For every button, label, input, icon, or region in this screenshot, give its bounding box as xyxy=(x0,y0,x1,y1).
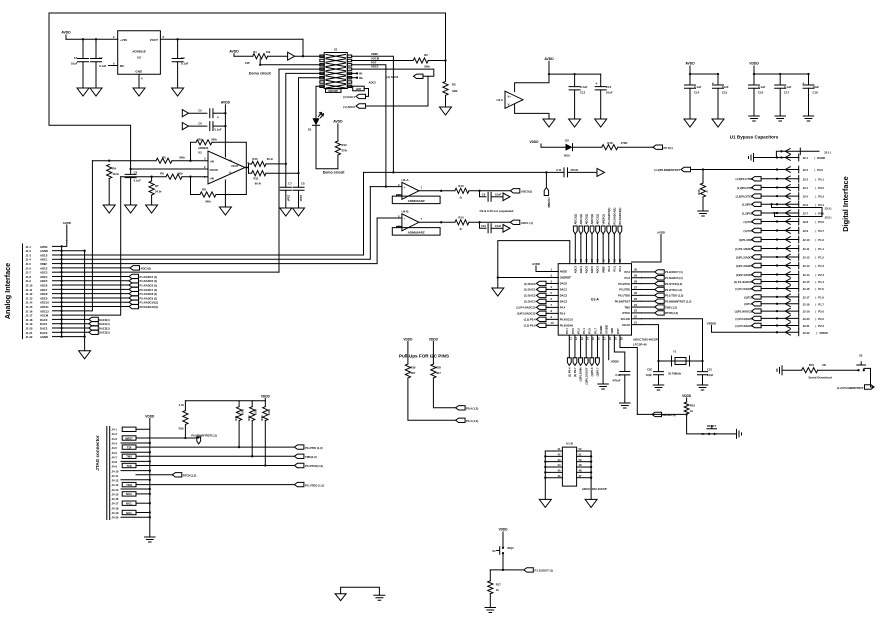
power net AVDD (R1) xyxy=(229,49,239,56)
svg-text:Pull-Ups FOR I2C PINS: Pull-Ups FOR I2C PINS xyxy=(399,354,449,359)
row J2-20 P2.2 xyxy=(735,315,824,322)
wire switch to ground xyxy=(717,433,737,435)
svg-text:27: 27 xyxy=(634,285,637,289)
svg-text:R11: R11 xyxy=(254,176,259,180)
row J2-17 P1.6 xyxy=(744,294,824,301)
svg-text:P2.4: P2.4 xyxy=(818,273,824,277)
svg-text:28: 28 xyxy=(634,279,637,283)
capacitor C10 (not populated) xyxy=(480,222,504,233)
svg-text:P0.5: P0.5 xyxy=(571,328,575,334)
svg-text:J2-7: J2-7 xyxy=(803,212,809,216)
wire pull-up rail / power net VDDD xyxy=(185,394,270,401)
svg-text:J2-2: J2-2 xyxy=(803,168,809,172)
svg-text:J1-4: J1-4 xyxy=(26,258,32,262)
svg-text:51: 51 xyxy=(579,453,582,457)
wire J1 pin stubs xyxy=(53,245,63,338)
power net AVDD (bypass) xyxy=(685,62,695,75)
svg-text:32.768kHz: 32.768kHz xyxy=(668,372,682,376)
svg-text:J1-6: J1-6 xyxy=(26,266,32,270)
svg-text:42: 42 xyxy=(558,453,561,457)
row J2-21 P2.3 xyxy=(735,322,824,329)
power net AVDD (U4-C) xyxy=(544,57,554,74)
svg-text:J2-13: J2-13 xyxy=(803,264,810,268)
svg-text:R2: R2 xyxy=(424,53,428,57)
svg-text:R6: R6 xyxy=(160,172,164,176)
svg-text:U4-A: U4-A xyxy=(402,178,410,182)
wire U2 GND pin xyxy=(138,74,140,88)
svg-text:12pF: 12pF xyxy=(707,373,714,377)
pin 32 / flag P2.4/ADC8(1) (U1-A top) xyxy=(618,208,622,272)
wire J1 AGND bus xyxy=(62,251,85,337)
svg-text:(1) P0.7: (1) P0.7 xyxy=(573,367,577,377)
svg-text:IN-: IN- xyxy=(359,72,363,76)
svg-text:SW-DIP: SW-DIP xyxy=(328,89,338,93)
capacitor C14 xyxy=(685,74,702,119)
svg-text:P2.2/ADC7 (1): P2.2/ADC7 (1) xyxy=(665,270,683,274)
wire header row3 to analog bus (long vertical x=279) xyxy=(279,69,324,272)
svg-text:348r: 348r xyxy=(452,89,459,93)
svg-text:TCK: TCK xyxy=(126,464,132,468)
svg-text:50: 50 xyxy=(579,458,582,462)
svg-text:J2-6: J2-6 xyxy=(803,203,809,207)
svg-text:J1-7: J1-7 xyxy=(26,271,32,275)
svg-text:W1A: W1A xyxy=(564,154,570,158)
svg-text:VREF: VREF xyxy=(40,262,48,266)
svg-text:C15: C15 xyxy=(722,90,728,94)
wire AGND-DGND tie xyxy=(341,587,380,595)
flag P2.4/ADC9 (1) (J1 row13) xyxy=(62,296,158,301)
svg-text:IOVDD: IOVDD xyxy=(605,325,609,334)
svg-text:J4-5: J4-5 xyxy=(112,446,118,450)
svg-text:(1)P1.3/ADC5: (1)P1.3/ADC5 xyxy=(736,264,753,268)
svg-text:R14: R14 xyxy=(458,215,464,219)
svg-text:C7: C7 xyxy=(288,182,292,186)
svg-text:R39: R39 xyxy=(411,366,416,370)
svg-text:ADC5: ADC5 xyxy=(40,279,48,283)
ground (R40) xyxy=(698,211,709,216)
IC U1-B left pins xyxy=(544,447,562,479)
wire U4-B output xyxy=(419,221,454,223)
wire R13 to flag ADC0 xyxy=(469,190,510,192)
svg-text:ADC5: ADC5 xyxy=(590,266,594,274)
svg-text:P0.3: P0.3 xyxy=(818,195,824,199)
svg-text:C18: C18 xyxy=(813,90,819,94)
resistor R11 xyxy=(249,171,300,186)
U4-A package AD8606ARZ xyxy=(392,196,440,204)
svg-text:J1-14: J1-14 xyxy=(26,301,33,305)
resistor R13 xyxy=(455,184,469,200)
svg-text:+IN: +IN xyxy=(210,159,214,163)
svg-text:VDDD: VDDD xyxy=(682,394,692,398)
wire J1 common bus vertical xyxy=(61,246,63,336)
svg-text:P2.0/ADC12(1): P2.0/ADC12(1) xyxy=(140,305,158,309)
ground (C21) xyxy=(697,385,708,390)
wire header row7 to LED box xyxy=(347,85,352,87)
svg-text:P1.1: P1.1 xyxy=(818,247,824,251)
svg-text:J4-2: J4-2 xyxy=(112,432,118,436)
svg-text:J2-20: J2-20 xyxy=(803,317,810,321)
resistor R17 xyxy=(488,570,502,608)
flag DAC3(1) (J1 row21) xyxy=(62,330,110,335)
svg-text:P1.4/ADC10(1): P1.4/ADC10(1) xyxy=(140,301,158,305)
svg-text:24.9r: 24.9r xyxy=(155,189,162,193)
wire NRST row / resistor R16 xyxy=(136,401,199,439)
svg-text:DAC0: DAC0 xyxy=(560,282,568,286)
resistor R2 xyxy=(413,53,431,68)
flag (1) DAC3 (U1-A pin6) xyxy=(524,299,548,304)
svg-text:Serial Download: Serial Download xyxy=(808,376,832,380)
svg-text:J3-3 |: J3-3 | xyxy=(825,206,832,210)
capacitor C19 xyxy=(612,372,629,403)
svg-text:N/CL: N/CL xyxy=(126,511,133,515)
svg-text:0.1uF: 0.1uF xyxy=(215,127,222,131)
svg-text:DAC3: DAC3 xyxy=(560,300,568,304)
svg-text:10uF: 10uF xyxy=(813,85,820,89)
capacitor C2 xyxy=(91,39,107,88)
svg-text:C17: C17 xyxy=(784,90,790,94)
svg-text:ADC10: ADC10 xyxy=(40,301,49,305)
flag DAC0(1) (J1 row18) xyxy=(62,317,110,322)
flag ADC2(1) (J1 row6) xyxy=(62,266,152,271)
svg-text:J1-1: J1-1 xyxy=(26,245,32,249)
wire R1 input xyxy=(234,55,253,57)
svg-text:348r: 348r xyxy=(177,172,184,176)
svg-text:21: 21 xyxy=(634,320,637,324)
svg-text:P2.0: P2.0 xyxy=(818,310,824,314)
svg-text:100k: 100k xyxy=(241,409,245,415)
svg-text:P0.4: P0.4 xyxy=(818,203,824,207)
svg-text:J4-13: J4-13 xyxy=(112,483,119,487)
svg-text:J4-20: J4-20 xyxy=(112,516,119,520)
ground (C18) xyxy=(803,116,814,121)
pin 5 NC stub xyxy=(109,65,118,67)
pin 38 / flag ADC0(1) (U1-A top) xyxy=(585,214,589,274)
ground (U2) xyxy=(133,88,145,96)
flag TMS(1,2) xyxy=(294,454,316,459)
flag P2.4/ADC7 (1) (J1 row11) xyxy=(62,287,158,292)
flag P0.0/BM/NTRST(1,2) (JTAG) xyxy=(191,434,217,444)
svg-text:34: 34 xyxy=(607,259,611,262)
svg-text:+IN: +IN xyxy=(210,177,214,181)
wire header row4 to R10 node xyxy=(286,73,324,163)
wire U3 V- to ground xyxy=(224,180,226,207)
row J2-9 P0.7 xyxy=(743,227,824,234)
ground (C2) xyxy=(90,88,102,96)
svg-text:VDDD: VDDD xyxy=(529,140,539,144)
svg-text:24: 24 xyxy=(634,303,637,307)
svg-text:RESET: RESET xyxy=(707,424,716,428)
net box TDO (J4) xyxy=(122,482,136,487)
svg-text:ADC1 (1): ADC1 (1) xyxy=(521,221,533,225)
power net AVDD (J1 row1) xyxy=(62,221,72,246)
svg-text:35: 35 xyxy=(601,259,605,262)
ground (tie, earth) xyxy=(374,595,385,600)
svg-text:ADC5: ADC5 xyxy=(369,81,377,85)
wire VOCM distribution loop (top border) xyxy=(49,13,446,169)
svg-text:VDDIO: VDDIO xyxy=(819,331,828,335)
svg-text:60.4r: 60.4r xyxy=(267,157,274,161)
svg-text:VDDD: VDDD xyxy=(498,528,508,532)
svg-text:IN+: IN+ xyxy=(359,76,364,80)
IC U1-A left pin stubs xyxy=(548,267,574,327)
IC U1-A bottom pin labels xyxy=(565,325,623,340)
svg-text:J4-9: J4-9 xyxy=(112,465,118,469)
svg-text:+VIN: +VIN xyxy=(120,38,127,42)
svg-text:P1.3/ADC5(1): P1.3/ADC5(1) xyxy=(607,208,611,225)
row J2-3 P0.1 xyxy=(736,175,825,182)
net box N/CL (J4) xyxy=(122,510,136,515)
svg-text:S3: S3 xyxy=(701,432,705,436)
svg-text:ADC3: ADC3 xyxy=(371,65,379,69)
svg-text:Digital Interface: Digital Interface xyxy=(841,176,850,231)
svg-text:J1-19: J1-19 xyxy=(26,322,33,326)
svg-text:AVDD: AVDD xyxy=(333,120,343,124)
svg-text:AVDD: AVDD xyxy=(685,62,695,66)
wire U1-B left gnd xyxy=(544,451,546,499)
wire S2 down to flag xyxy=(864,368,874,387)
svg-text:4K7: 4K7 xyxy=(411,371,416,375)
svg-text:(1)P1.7: (1)P1.7 xyxy=(744,302,753,306)
svg-text:(1) P2.3/ADC6: (1) P2.3/ADC6 xyxy=(735,324,753,328)
svg-text:(1) P0.6: (1) P0.6 xyxy=(743,220,753,224)
svg-text:C2: C2 xyxy=(99,56,103,60)
svg-text:J4-6: J4-6 xyxy=(112,451,118,455)
svg-text:J1-8: J1-8 xyxy=(26,275,32,279)
flag /RESET(2) xyxy=(652,412,676,417)
svg-text:S1: S1 xyxy=(334,48,338,52)
svg-text:J2-17: J2-17 xyxy=(803,295,810,299)
svg-text:P1.5: P1.5 xyxy=(818,287,824,291)
svg-text:P0.0/BM/NTRST(1,2): P0.0/BM/NTRST(1,2) xyxy=(191,434,217,438)
svg-text:DAC2: DAC2 xyxy=(40,326,48,330)
svg-text:23: 23 xyxy=(634,309,637,313)
svg-text:348r: 348r xyxy=(179,156,186,160)
svg-text:VDDD: VDDD xyxy=(429,337,439,341)
svg-text:J1-9: J1-9 xyxy=(26,279,32,283)
flag P0.7(1) xyxy=(653,145,673,150)
IC U1-B right pins xyxy=(577,447,593,479)
svg-text:VOUT: VOUT xyxy=(150,38,159,42)
row J2-11 P1.1 xyxy=(735,245,824,252)
wire U4-A +IN xyxy=(370,186,402,188)
ground (R4) xyxy=(103,205,115,213)
flag (1) P4.4/ADC10 (U1-A pin7) xyxy=(516,305,548,310)
svg-text:R12: R12 xyxy=(342,143,348,147)
resistor R6 / wire +IN lower xyxy=(121,172,208,180)
svg-text:P0.3/TCK: P0.3/TCK xyxy=(618,282,630,286)
wire TDI row to flag xyxy=(136,446,294,448)
svg-text:U1 Bypass Capacitors: U1 Bypass Capacitors xyxy=(730,135,779,140)
svg-text:C4: C4 xyxy=(134,171,138,175)
wire GNDREF pin2 loop xyxy=(498,241,570,278)
svg-text:D2: D2 xyxy=(565,139,569,143)
svg-text:C5: C5 xyxy=(198,109,202,113)
svg-text:(1) P0.4: (1) P0.4 xyxy=(567,367,571,377)
flag P2.0/ADC12(1) (J1 row15) xyxy=(62,304,158,309)
svg-text:C14: C14 xyxy=(694,90,700,94)
pin 40 / flag ADC3(1) (U1-A top) xyxy=(573,214,577,274)
svg-text:P1.6: P1.6 xyxy=(588,328,592,334)
svg-text:P2.2: P2.2 xyxy=(818,317,824,321)
flag (1) DAC2 (U1-A pin5) xyxy=(524,293,548,298)
wire R2 to junction xyxy=(428,60,445,62)
jumper header S1 body xyxy=(320,48,352,89)
svg-text:P1.4: P1.4 xyxy=(818,280,824,284)
svg-text:VDD: VDD xyxy=(610,328,614,334)
svg-text:P2.4: P2.4 xyxy=(618,265,622,271)
capacitor C9 (not populated) xyxy=(480,191,504,202)
ground (C15) xyxy=(712,119,724,127)
flag TMS (1,2) (U1-A pin24) xyxy=(642,305,678,310)
svg-text:VREF(1): VREF(1) xyxy=(601,214,605,225)
svg-text:(1)P1.1/SOUT: (1)P1.1/SOUT xyxy=(584,367,588,384)
capacitor C7 xyxy=(280,164,292,208)
flag P0.3/TCK(1,2) (U1-A pin28) xyxy=(642,281,683,286)
wire VOUT rail xyxy=(160,38,303,40)
flag (1)P1.0/SIN (U1-A pin13) xyxy=(579,335,583,381)
capacitor C17 xyxy=(775,74,792,116)
svg-text:P1.0: P1.0 xyxy=(818,238,824,242)
svg-text:VDDD: VDDD xyxy=(403,337,413,341)
svg-text:ADC1: ADC1 xyxy=(579,266,583,274)
wire U4-A output xyxy=(419,190,454,192)
flag P0.4 (1,2) xyxy=(456,418,479,423)
power net VDDIO (J2-22) xyxy=(707,321,828,335)
svg-text:R9: R9 xyxy=(198,137,202,141)
flag (1,2)P0.6/BM/NTRST (J2-2) xyxy=(654,166,823,173)
wire VDD pin19 to C19 xyxy=(614,335,624,371)
svg-text:ADC2: ADC2 xyxy=(40,266,48,270)
svg-text:52: 52 xyxy=(579,447,582,451)
svg-text:+: + xyxy=(712,82,714,86)
net label VREF / wire to VREF line xyxy=(352,52,394,172)
svg-text:(1) P1.5/ADC6: (1) P1.5/ADC6 xyxy=(735,287,753,291)
U4-B package AD8606ARZ xyxy=(392,228,440,236)
connector J3-1 row xyxy=(776,148,831,158)
svg-text:R10: R10 xyxy=(252,157,258,161)
svg-text:J1-18: J1-18 xyxy=(26,318,33,322)
net box NRST (J4) xyxy=(122,436,136,441)
svg-text:J2-21: J2-21 xyxy=(803,324,810,328)
wire AVDD to caps xyxy=(549,73,601,75)
svg-text:25: 25 xyxy=(634,297,637,301)
svg-text:J1-22: J1-22 xyxy=(26,335,33,339)
svg-text:J3-2 |: J3-2 | xyxy=(825,215,832,219)
ground (C4) xyxy=(125,205,137,213)
svg-text:V+: V+ xyxy=(229,159,233,163)
flag (1) P0.4 (U1-A pin11) xyxy=(567,335,571,377)
capacitor C5 xyxy=(182,109,226,120)
svg-text:J1-2: J1-2 xyxy=(26,249,32,253)
capacitor C13 xyxy=(595,74,613,119)
svg-text:J1-21: J1-21 xyxy=(26,331,33,335)
svg-text:26: 26 xyxy=(634,291,637,295)
flag (1) DAC0 (U1-A pin3) xyxy=(524,281,548,286)
ground (C16) xyxy=(749,116,760,121)
svg-text:J4-8: J4-8 xyxy=(112,460,118,464)
svg-text:LFCSP-40: LFCSP-40 xyxy=(633,342,647,346)
svg-text:TMS(1,2): TMS(1,2) xyxy=(305,455,317,459)
svg-text:C6: C6 xyxy=(198,121,202,125)
svg-text:ADC11: ADC11 xyxy=(40,305,49,309)
flag P1.2/ADC4 (1) (J1 row8) xyxy=(62,274,158,279)
svg-text:DAC3: DAC3 xyxy=(40,331,48,335)
svg-text:(1)P2.4/ADC8: (1)P2.4/ADC8 xyxy=(736,273,753,277)
svg-text:NRST: NRST xyxy=(125,436,133,440)
ground (serial download, side) xyxy=(777,366,782,375)
svg-text:P0.6/BM/NTRST (1,2): P0.6/BM/NTRST (1,2) xyxy=(665,300,692,304)
resistor R12 xyxy=(335,141,348,169)
svg-text:R16: R16 xyxy=(179,427,184,431)
svg-text:(1) DAC0: (1) DAC0 xyxy=(524,282,536,286)
switch S2 xyxy=(857,354,866,372)
ground (S3, side) xyxy=(737,429,742,438)
wire R1 wiper to header row2 xyxy=(260,64,324,66)
wire R14 to flag ADC1 xyxy=(469,221,510,223)
svg-text:J3-1 |: J3-1 | xyxy=(824,150,831,154)
svg-text:C10: C10 xyxy=(481,224,486,228)
svg-text:348r: 348r xyxy=(205,199,212,203)
svg-text:45: 45 xyxy=(558,469,561,473)
svg-text:(1) P0.7: (1) P0.7 xyxy=(743,229,753,233)
svg-text:RTCK(1,2): RTCK(1,2) xyxy=(183,474,197,478)
svg-text:J4-10: J4-10 xyxy=(112,469,119,473)
svg-text:37: 37 xyxy=(590,259,594,262)
flag (1)P3.0/ADC12 (U1-A pin8) xyxy=(517,311,548,316)
svg-text:DAC1: DAC1 xyxy=(40,322,48,326)
svg-text:P2.4/ADC9 (1): P2.4/ADC9 (1) xyxy=(140,296,158,300)
svg-text:348r: 348r xyxy=(211,137,218,141)
svg-text:P0.7: P0.7 xyxy=(565,328,569,334)
resistor R23 pull-up xyxy=(260,401,271,467)
wire /RESET row xyxy=(637,413,686,415)
svg-text:TDO: TDO xyxy=(126,483,132,487)
wire U4-B pin6 to box xyxy=(397,226,402,227)
wire R29 to flag P0.9 xyxy=(433,378,455,408)
resistor R15 xyxy=(802,363,826,373)
pin 36 / flag ADC2(1) (U1-A top) xyxy=(596,214,600,274)
svg-text:DAC2(1): DAC2(1) xyxy=(99,326,110,330)
svg-text:TMS (1,2): TMS (1,2) xyxy=(665,305,677,309)
connector J3-2 row xyxy=(773,212,831,219)
ground (C12) xyxy=(569,119,581,127)
wire junction up to border xyxy=(445,13,447,61)
ground (J4) xyxy=(145,537,156,542)
wire J4 gnd stubs xyxy=(121,429,151,537)
svg-text:AVDD: AVDD xyxy=(40,245,47,249)
svg-text:DAC1(1): DAC1(1) xyxy=(99,322,110,326)
svg-text:RST: RST xyxy=(616,328,620,334)
ground (GNDREF) xyxy=(497,277,499,288)
svg-text:4.7k: 4.7k xyxy=(179,403,185,407)
svg-text:J1-20: J1-20 xyxy=(26,326,33,330)
svg-text:+: + xyxy=(803,82,805,86)
svg-text:J2-8: J2-8 xyxy=(803,220,809,224)
svg-text:J1-11: J1-11 xyxy=(26,288,33,292)
svg-text:P0.6: P0.6 xyxy=(818,220,824,224)
svg-text:P1.7: P1.7 xyxy=(593,328,597,334)
net label POT / wire to R2 xyxy=(352,56,413,60)
power net VDDD (R39) xyxy=(403,337,413,364)
svg-text:33: 33 xyxy=(612,259,616,262)
flag P0.3/TCK(1,2) xyxy=(294,463,323,468)
svg-text:P0.7(1): P0.7(1) xyxy=(664,146,673,150)
svg-text:J1-5: J1-5 xyxy=(26,262,32,266)
row J2-5 P0.3 xyxy=(736,193,825,200)
wire crystal row xyxy=(659,360,703,362)
svg-text:ADC2(1): ADC2(1) xyxy=(141,266,152,270)
svg-text:J4-18: J4-18 xyxy=(112,506,119,510)
